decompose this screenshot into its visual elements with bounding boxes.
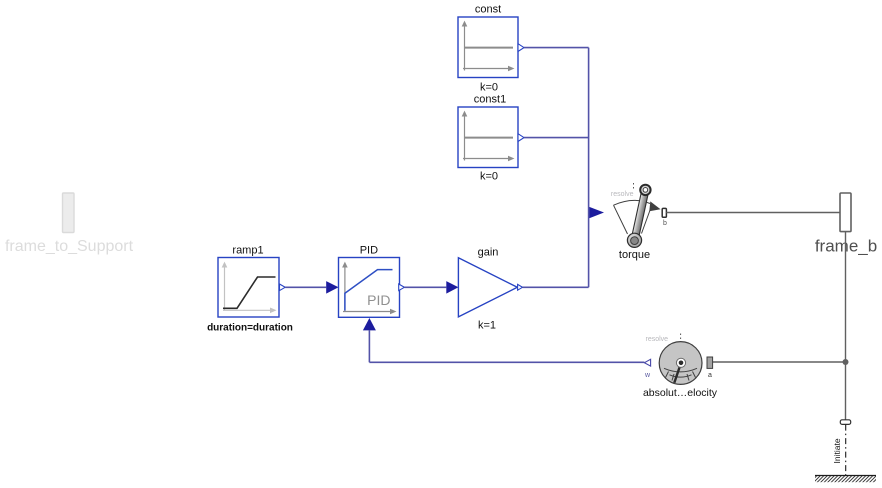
svg-text:k=0: k=0 (480, 171, 498, 183)
svg-text:frame_to_Support: frame_to_Support (5, 238, 134, 255)
svg-text:const: const (475, 4, 501, 16)
wire PID.y to gain.u (404, 286, 446, 288)
wire const1.y to trunk (524, 137, 589, 139)
gain block gain (458, 258, 517, 317)
svg-text:gain: gain (478, 247, 499, 259)
output port gain.y (518, 284, 523, 290)
constant block const1 (458, 107, 518, 168)
PID controller block PID (339, 258, 400, 318)
svg-text:k=0: k=0 (480, 82, 498, 94)
dash-dot line fixed (845, 425, 847, 476)
junction (843, 359, 849, 365)
wire sensor.frame_a to junction (713, 361, 846, 363)
svg-text:b: b (663, 220, 667, 227)
wire feedback vertical (368, 330, 370, 362)
input port gain.u (446, 281, 458, 294)
ground hatch (815, 476, 876, 482)
svg-text:PID: PID (367, 292, 390, 308)
output port PID.y (399, 284, 405, 291)
connector sensor.frame_a (707, 357, 713, 368)
output port sensor.w (644, 359, 650, 366)
svg-text:torque: torque (619, 249, 650, 261)
svg-text:resolve: resolve (611, 191, 634, 198)
ground line (815, 475, 876, 477)
ramp block ramp1 (218, 258, 279, 318)
svg-text:resolve: resolve (646, 336, 669, 343)
connector frame_b (840, 193, 851, 232)
output port ramp1.y (280, 284, 286, 291)
input port PID.u_s (326, 281, 338, 294)
wire trunk vertical (588, 48, 590, 288)
svg-text:w: w (644, 372, 651, 379)
svg-text:a: a (708, 372, 712, 379)
connector frame_to_Support (63, 193, 75, 233)
svg-text:PID: PID (360, 245, 378, 257)
input port PID.u_m (bottom) (363, 318, 376, 330)
wire gain.y to torque.torque (trunk) (523, 286, 589, 288)
svg-text:const1: const1 (474, 94, 506, 106)
connector fixed.frame_b (840, 420, 850, 425)
output port const.y (518, 44, 524, 52)
input port torque.torque (589, 207, 604, 218)
wire sensor.w to PID.u_m horizontal (369, 361, 644, 363)
torque actuator torque (614, 185, 661, 248)
wire torque.frame_b to frame_b (666, 212, 840, 214)
svg-text:k=1: k=1 (478, 320, 496, 332)
svg-text:absolut…elocity: absolut…elocity (643, 387, 718, 399)
wire frame_b down to fixed (845, 232, 847, 420)
dashed resolve stub (torque) (633, 183, 635, 190)
sensor absoluteAngularVelocity (659, 342, 702, 385)
svg-text:Initiate: Initiate (832, 438, 842, 463)
wire const.y to trunk (524, 47, 589, 49)
connector torque.frame_b (662, 208, 666, 217)
constant block const (458, 17, 518, 78)
svg-text:duration=duration: duration=duration (207, 323, 293, 334)
wire ramp1.y to PID.u_s (285, 286, 326, 288)
output port const1.y (518, 134, 524, 142)
svg-text:ramp1: ramp1 (232, 245, 263, 257)
dashed resolve stub (sensor) (680, 334, 682, 342)
